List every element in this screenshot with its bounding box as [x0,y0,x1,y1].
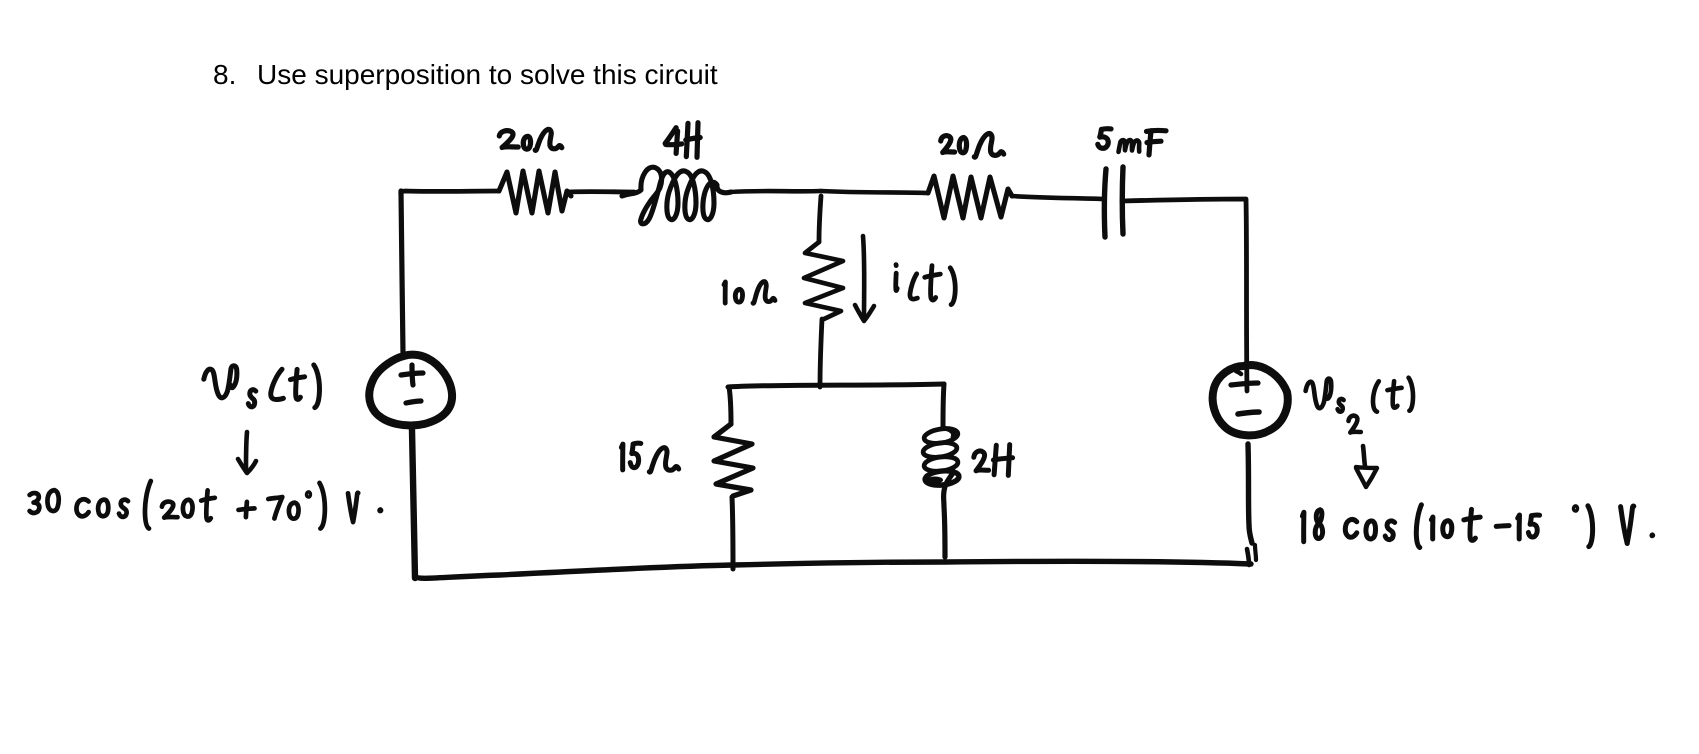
label 20Ω (top left resistor) [499,129,562,150]
source Vs minus sign [406,401,421,403]
wire: node A to R2 [821,191,928,193]
capacitor 5mF right plate [1120,167,1126,234]
resistor 20Ω (top left) [499,171,571,213]
label Vs(t) [204,365,320,408]
wire: 10Ω down to node B [820,319,822,387]
resistor 20Ω (top right) [928,176,1012,218]
label 10Ω [724,281,775,303]
current arrow i(t) [863,236,864,318]
source Vs circle [369,355,452,426]
wire: source Vs2 down to bottom-right corner [1248,444,1252,543]
arrow below Vs(t) [246,432,247,468]
bottom wire [416,561,1251,578]
label 20Ω (top right resistor) [941,134,1004,158]
label 30cos(20t + 70°) V. [30,481,381,529]
source Vs plus sign [401,373,423,375]
inductor 2H [943,428,954,437]
source Vs2 plus sign [1231,383,1258,385]
capacitor 5mF left plate [1104,169,1106,237]
label 18 cos (10t - 15°) V. [1302,505,1653,548]
heading text [213,61,236,89]
wire: top-left corner down to source Vs [401,191,403,353]
inductor 4H [622,167,731,224]
label Vs2(t) [1306,378,1413,433]
wire: source Vs down to bottom-left corner [412,430,415,578]
wire: node A down to 10Ω [819,196,821,242]
source Vs2 circle [1213,365,1288,435]
label i(t) [896,265,956,305]
label 2H [974,445,1013,476]
wire: R1 to L1 [567,189,634,194]
label 4H [665,123,700,158]
resistor 10Ω (middle) [804,242,843,319]
label 5mF [1098,129,1166,155]
node B horizontal bar [728,384,944,387]
resistor 15Ω [714,424,753,496]
wire: L1 to node A [731,191,821,192]
wire: 15Ω down to bottom wire [732,497,733,569]
label 15Ω [621,443,678,472]
wire: 2H down to bottom wire [944,473,953,557]
wire: top-left horizontal segment [401,191,499,194]
wire: node B down to 2H [943,384,944,427]
wire: C1 to top-right corner and down to source Vs2 [1123,199,1247,391]
wire: node B down to 15Ω [729,387,731,424]
source Vs2 minus sign [1238,412,1259,414]
wire: R2 to C1 [1012,196,1104,199]
arrow below Vs2(t) [1363,446,1365,466]
